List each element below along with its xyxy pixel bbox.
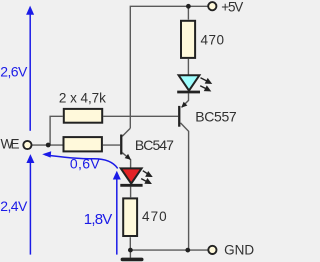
svg-text:GND: GND xyxy=(224,242,254,257)
wire red LED to bottom 470 xyxy=(130,187,132,198)
terminal +5V xyxy=(208,2,216,10)
svg-text:+5V: +5V xyxy=(221,0,243,15)
transistor Q2 BC557 base bar xyxy=(178,106,180,127)
resistor 2x4,7k upper xyxy=(64,109,102,123)
wire BC557 collector to GND rail xyxy=(181,123,189,250)
LED D1 cathode bar xyxy=(177,91,200,94)
svg-text:1,8V: 1,8V xyxy=(84,211,113,228)
terminal WE xyxy=(23,141,31,149)
LED D2 light arrows xyxy=(141,171,151,184)
junction node at GND left xyxy=(128,248,133,253)
wire ground stub xyxy=(129,250,131,258)
wire +5V rail xyxy=(130,6,208,128)
wire top resistor to BC557 base xyxy=(103,115,178,117)
svg-text:2,4V: 2,4V xyxy=(0,198,28,214)
junction node at +5V rail xyxy=(186,4,191,9)
wire GND rail xyxy=(130,249,208,251)
LED D1 cyan triangle xyxy=(179,75,200,90)
ground symbol xyxy=(121,258,144,262)
wire BC547 collector up xyxy=(122,128,130,136)
wire branch up to top resistor xyxy=(50,116,63,145)
resistor 2x4,7k lower xyxy=(64,137,102,151)
svg-text:2,6V: 2,6V xyxy=(0,64,28,80)
wire 470 to cyan LED xyxy=(187,59,189,76)
wire WE to resistor xyxy=(31,144,62,146)
annotation curved arrow 0,6V xyxy=(45,155,118,169)
wire bottom 470 to GND rail xyxy=(129,237,131,250)
junction node at GND right xyxy=(185,248,190,253)
wire cyan LED to BC557 emitter xyxy=(182,93,189,107)
terminal GND xyxy=(208,246,216,254)
svg-text:2 x 4,7k: 2 x 4,7k xyxy=(59,90,106,105)
svg-text:BC557: BC557 xyxy=(195,109,237,125)
svg-text:470: 470 xyxy=(142,209,167,224)
svg-text:470: 470 xyxy=(201,32,225,47)
resistor 470 top xyxy=(181,21,195,58)
transistor Q2 BC557 emitter arrowhead xyxy=(181,102,187,108)
wire resistor to BC547 base xyxy=(103,144,120,146)
LED D1 light arrows xyxy=(200,78,211,91)
resistor 470 bottom xyxy=(123,198,137,236)
wire BC547 emitter to red LED xyxy=(122,153,130,169)
svg-text:BC547: BC547 xyxy=(135,137,174,153)
transistor Q1 BC547 emitter arrowhead xyxy=(125,154,131,160)
LED D2 cathode bar xyxy=(120,184,142,187)
wire top 470 stub xyxy=(187,6,189,19)
junction node at WE xyxy=(46,143,51,148)
annotation arrow 2,6V xyxy=(26,6,34,131)
LED D2 red triangle xyxy=(121,168,142,183)
transistor Q1 BC547 base bar xyxy=(120,135,122,155)
annotation arrow 2,4V xyxy=(26,154,34,255)
svg-text:0,6V: 0,6V xyxy=(70,156,100,172)
svg-text:WE: WE xyxy=(1,136,20,151)
annotation arrow 1,8V xyxy=(113,171,121,255)
